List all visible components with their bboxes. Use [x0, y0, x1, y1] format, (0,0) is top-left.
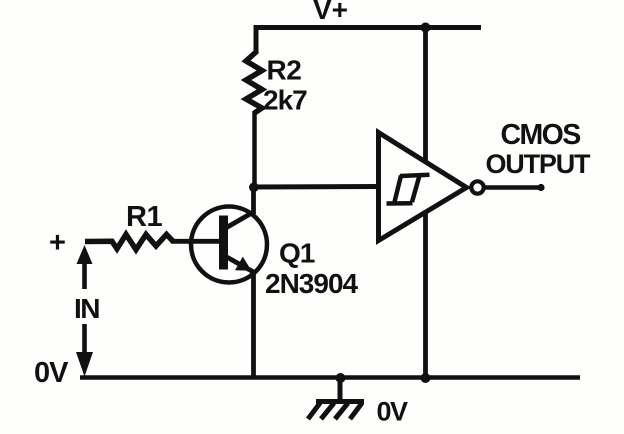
input arrow up: head — [77, 245, 93, 264]
ground symbol: hatch leg 2 — [321, 403, 334, 419]
resistor R1 with leads — [85, 234, 173, 249]
transistor Q1: base bar — [219, 216, 228, 270]
wire: collector node to inverter input — [253, 184, 379, 190]
wire: inverter output lead — [485, 185, 541, 190]
ground symbol: hatch leg 3 — [335, 403, 348, 419]
input arrow up: shaft — [82, 261, 87, 289]
svg-text:CMOS: CMOS — [501, 119, 581, 151]
transistor Q1: base wire into circle — [171, 239, 221, 244]
svg-text:2k7: 2k7 — [263, 85, 307, 116]
ground symbol: hatch leg 1 — [308, 403, 320, 419]
wire: R2 bottom to collector node — [252, 111, 257, 189]
svg-text:R2: R2 — [267, 55, 302, 86]
transistor Q1: circle — [191, 207, 267, 283]
junction: dot at ground stub — [336, 373, 346, 383]
svg-text:+: + — [49, 227, 66, 259]
wire: collector up to node — [251, 187, 256, 214]
junction: collector node dot — [249, 183, 259, 193]
junction: dot where inverter line meets 0V rail — [421, 373, 431, 383]
hysteresis symbol inside U1 — [400, 175, 430, 176]
svg-text:V+: V+ — [313, 0, 348, 25]
wire: V+ rail down through inverter to 0V rail — [423, 25, 428, 378]
transistor Q1: emitter stroke — [224, 256, 254, 273]
input arrow down: head — [76, 352, 93, 377]
ground symbol: stub — [338, 377, 343, 402]
junction: dot on V+ rail — [421, 23, 431, 33]
svg-text:0V: 0V — [34, 357, 69, 389]
svg-text:OUTPUT: OUTPUT — [486, 149, 592, 179]
svg-text:R1: R1 — [126, 201, 162, 233]
transistor Q1: collector stroke — [224, 212, 254, 229]
svg-text:IN: IN — [74, 293, 99, 324]
transistor Q1: emitter arrowhead — [235, 257, 252, 271]
svg-text:2N3904: 2N3904 — [265, 268, 359, 299]
ground symbol: top bar — [316, 399, 364, 404]
resistor R2 — [246, 52, 262, 113]
ground symbol: hatch leg 4 — [350, 403, 362, 419]
inverter output bubble — [471, 181, 483, 193]
op-amp U1: schmitt trigger inverter triangle — [379, 133, 467, 241]
wire: V+ top rail with corner down to R2 — [256, 28, 481, 55]
wire: 0V bottom rail — [80, 375, 580, 380]
input arrow down: shaft — [82, 324, 87, 355]
svg-text:Q1: Q1 — [279, 238, 315, 269]
svg-text:0V: 0V — [377, 397, 409, 427]
wire: emitter down to 0V rail — [251, 270, 256, 378]
output terminal dot — [537, 184, 544, 191]
